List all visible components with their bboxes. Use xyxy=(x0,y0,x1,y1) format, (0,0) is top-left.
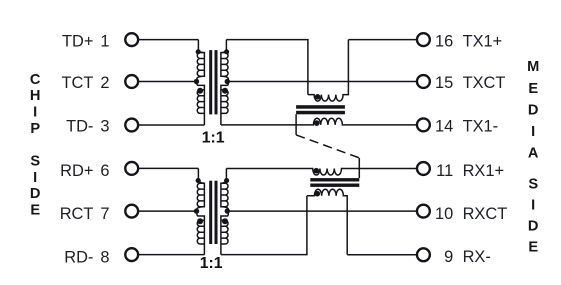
svg-text:1:1: 1:1 xyxy=(200,255,223,272)
transformer T1 primary winding xyxy=(197,40,205,125)
wire TD- pin 3 to T1 xyxy=(138,124,204,126)
transformer T1 core bar 1 xyxy=(209,50,212,114)
svg-text:RCT: RCT xyxy=(60,205,94,223)
svg-text:TX1-: TX1- xyxy=(463,118,499,136)
dashed diagonal link xyxy=(296,135,359,158)
svg-text:I: I xyxy=(531,198,535,214)
choke L2 bottom winding phase dot xyxy=(315,191,321,197)
link wire from choke L1 core xyxy=(295,114,297,135)
wire T1 secondary top to choke L1 xyxy=(226,40,308,95)
svg-text:14: 14 xyxy=(435,118,453,136)
transformer T1 secondary junction dot xyxy=(225,79,230,84)
transformer T1 secondary winding xyxy=(221,40,228,125)
pin circle RX- (9) xyxy=(417,248,430,261)
wire TD+ pin 1 to transformer T1 xyxy=(138,39,198,41)
pin circle TX1+ (16) xyxy=(417,33,430,46)
wire RX- choke L2 to pin 9 xyxy=(347,254,417,256)
svg-text:TD+: TD+ xyxy=(62,32,93,50)
wire TX1+ choke L1 to pin 16 xyxy=(348,39,417,41)
svg-text:6: 6 xyxy=(100,162,109,180)
choke L1 top winding phase dot xyxy=(315,94,321,100)
svg-text:C: C xyxy=(30,72,41,88)
transformer T1 core bar 2 xyxy=(215,50,218,114)
svg-text:RD-: RD- xyxy=(64,248,93,266)
transformer T2 primary winding xyxy=(197,168,205,254)
wire TX1- : T1 secondary bottom through choke L1 bottom winding to pin 14 xyxy=(221,118,417,125)
pin circle RCT (7) xyxy=(125,205,138,218)
svg-text:3: 3 xyxy=(100,118,109,136)
choke L1 core bar 1 xyxy=(296,105,345,109)
svg-text:2: 2 xyxy=(100,74,109,92)
svg-text:TXCT: TXCT xyxy=(463,74,506,92)
svg-text:E: E xyxy=(30,203,40,219)
svg-text:RX1+: RX1+ xyxy=(463,162,504,180)
svg-text:RD+: RD+ xyxy=(60,162,93,180)
transformer T1 primary winding-2 dot xyxy=(197,88,203,94)
choke L2 core bar 1 xyxy=(310,178,359,181)
wire T2 secondary bottom to choke L2 bottom winding xyxy=(221,196,307,255)
svg-text:S: S xyxy=(528,177,538,193)
svg-text:9: 9 xyxy=(444,248,453,266)
choke L2 core bar 2 xyxy=(310,184,359,187)
transformer T2 primary junction dot xyxy=(194,208,199,213)
transformer T1 secondary phase dot xyxy=(224,49,229,54)
choke L2 bottom winding xyxy=(307,189,347,255)
choke L1 core bar 2 xyxy=(296,111,345,115)
svg-text:15: 15 xyxy=(435,74,453,92)
wire RXCT T2 center tap to pin 10 xyxy=(228,210,417,212)
transformer T2 primary phase dot xyxy=(196,178,201,183)
transformer T2 secondary phase dot xyxy=(224,178,229,183)
svg-text:1: 1 xyxy=(100,32,109,50)
svg-text:I: I xyxy=(33,105,37,121)
svg-text:A: A xyxy=(528,146,539,162)
wire TXCT T1 center tap to pin 15 xyxy=(228,81,417,83)
choke L2 top winding phase dot xyxy=(314,168,320,174)
svg-text:16: 16 xyxy=(435,32,453,50)
svg-text:TCT: TCT xyxy=(62,74,94,92)
svg-text:RXCT: RXCT xyxy=(463,205,508,223)
pin circle RD- (8) xyxy=(125,248,138,261)
wire RD+ pin 6 to transformer T2 xyxy=(138,167,198,169)
transformer T1 secondary winding-2 dot xyxy=(222,88,228,94)
svg-text:E: E xyxy=(528,240,538,256)
pin circle RX1+ (11) xyxy=(417,162,430,175)
pin circle TD+ (1) xyxy=(125,33,138,46)
svg-text:7: 7 xyxy=(100,205,109,223)
svg-text:P: P xyxy=(30,121,40,137)
transformer T2 secondary junction dot xyxy=(225,208,230,213)
pin circle TXCT (15) xyxy=(417,75,430,88)
pin circle RD+ (6) xyxy=(125,162,138,175)
link wire to choke L2 core xyxy=(358,158,360,178)
transformer T2 core bar 1 xyxy=(209,181,212,244)
svg-text:TD-: TD- xyxy=(66,118,93,136)
transformer T1 primary junction dot xyxy=(194,79,199,84)
transformer T2 secondary winding xyxy=(221,168,228,254)
svg-text:H: H xyxy=(30,88,41,104)
wire RD- pin 8 to T2 xyxy=(138,254,204,256)
pin circle RXCT (10) xyxy=(417,205,430,218)
svg-text:D: D xyxy=(528,103,539,119)
svg-text:D: D xyxy=(30,186,41,202)
svg-text:TX1+: TX1+ xyxy=(463,32,503,50)
svg-text:I: I xyxy=(33,170,37,186)
svg-text:1:1: 1:1 xyxy=(202,130,225,147)
pin circle TX1- (14) xyxy=(417,118,430,131)
svg-text:D: D xyxy=(528,219,539,235)
svg-text:11: 11 xyxy=(436,162,453,180)
choke L1 bottom winding phase dot xyxy=(314,120,320,126)
svg-text:8: 8 xyxy=(100,248,109,266)
wire RX1+ : T2 secondary top through choke L2 top winding to pin 11 xyxy=(226,169,417,176)
wire RCT pin 7 to T2 center tap xyxy=(138,210,197,212)
transformer T2 core bar 2 xyxy=(215,181,218,244)
pin circle TCT (2) xyxy=(125,75,138,88)
svg-text:M: M xyxy=(527,59,539,75)
svg-text:E: E xyxy=(528,81,538,97)
svg-text:RX-: RX- xyxy=(463,248,491,266)
wire TCT pin 2 to T1 center tap xyxy=(138,81,197,83)
svg-text:S: S xyxy=(30,154,40,170)
transformer T2 primary winding-2 dot xyxy=(197,218,203,224)
transformer T2 secondary winding-2 dot xyxy=(222,218,228,224)
svg-text:I: I xyxy=(531,124,535,140)
transformer T1 primary phase dot xyxy=(196,49,201,54)
choke L1 top winding xyxy=(308,40,349,102)
svg-text:10: 10 xyxy=(435,205,453,223)
pin circle TD- (3) xyxy=(125,119,138,132)
